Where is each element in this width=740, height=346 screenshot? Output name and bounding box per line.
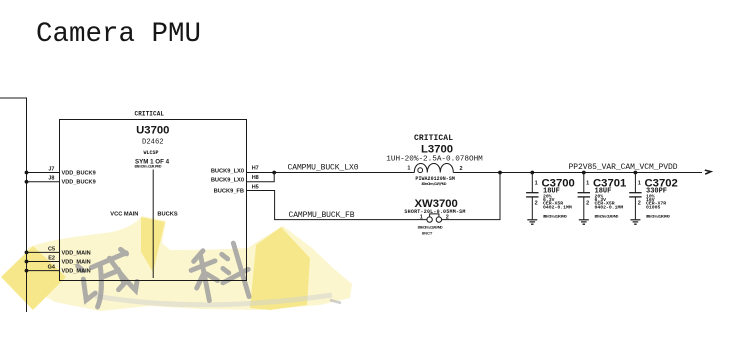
svg-text:800mOhm_CUR_PMD: 800mOhm_CUR_PMD — [595, 215, 619, 219]
svg-text:800mOhm_CUR_PMD: 800mOhm_CUR_PMD — [422, 182, 447, 186]
wire L3700 to output node — [453, 172, 500, 174]
junction J8 — [25, 180, 29, 184]
svg-text:CRITICAL: CRITICAL — [135, 111, 165, 118]
wire section divider inside U3700 — [152, 170, 154, 279]
svg-text:C5: C5 — [48, 246, 55, 252]
junction C3702 — [634, 171, 638, 175]
svg-text:800mOhm_CUR_PMD: 800mOhm_CUR_PMD — [543, 215, 567, 219]
svg-text:2: 2 — [446, 214, 449, 220]
svg-text:1: 1 — [535, 181, 538, 187]
svg-text:1: 1 — [420, 214, 423, 220]
junction C3700 — [530, 171, 534, 175]
svg-text:E2: E2 — [48, 256, 55, 262]
inductor L3700 — [414, 164, 453, 173]
junction E2 — [25, 260, 29, 264]
capacitor C3701 leads — [578, 173, 590, 220]
wire PP2V85_VAR_CAM_VCM_PVDD — [500, 172, 702, 174]
wire PP_VDD_MAIN feed — [0, 98, 27, 312]
wire pin H5 stub to FB — [247, 191, 427, 220]
svg-text:2: 2 — [460, 166, 463, 172]
svg-text:J8: J8 — [48, 176, 54, 182]
svg-text:PP2V85_VAR_CAM_VCM_PVDD: PP2V85_VAR_CAM_VCM_PVDD — [569, 163, 678, 172]
svg-text:8NCT: 8NCT — [422, 231, 433, 236]
svg-text:800mOhm_CUR_PMD: 800mOhm_CUR_PMD — [418, 226, 443, 230]
svg-text:CAMPMU_BUCK_FB: CAMPMU_BUCK_FB — [289, 211, 355, 220]
svg-text:D2462: D2462 — [142, 138, 164, 146]
junction G4 — [25, 269, 29, 273]
wire pin E2 stub — [27, 261, 60, 263]
capacitor C3700 leads — [526, 173, 538, 220]
svg-text:U3700: U3700 — [136, 124, 169, 136]
capacitor C3702 leads — [629, 173, 641, 220]
svg-text:BUCKS: BUCKS — [157, 211, 177, 217]
svg-text:VDD_MAIN: VDD_MAIN — [62, 259, 91, 265]
svg-text:CRITICAL: CRITICAL — [414, 134, 453, 143]
wire pin J7 stub — [27, 172, 60, 174]
svg-text:Camera PMU: Camera PMU — [36, 19, 201, 50]
svg-text:H8: H8 — [252, 175, 259, 181]
junction C5 — [25, 251, 29, 255]
junction C3701 — [582, 171, 586, 175]
junction J7 — [25, 171, 29, 175]
svg-text:VDD_BUCK9: VDD_BUCK9 — [62, 180, 96, 186]
wire pin G4 stub — [27, 270, 60, 272]
ground below C3702 — [630, 220, 640, 224]
svg-text:H7: H7 — [252, 166, 259, 172]
svg-text:VCC MAIN: VCC MAIN — [110, 211, 138, 217]
svg-text:CAMPMU_BUCK_LX0: CAMPMU_BUCK_LX0 — [288, 164, 359, 173]
svg-text:1: 1 — [638, 181, 641, 187]
ground below C3700 — [527, 220, 537, 224]
svg-text:1: 1 — [586, 181, 589, 187]
svg-text:01005: 01005 — [646, 204, 661, 210]
jumper XW3700 — [427, 214, 442, 222]
svg-text:BUCK9_LX0: BUCK9_LX0 — [211, 178, 244, 184]
svg-text:1UH-20%-2.5A-0.078OHM: 1UH-20%-2.5A-0.078OHM — [386, 155, 483, 163]
svg-text:WLCSP: WLCSP — [143, 150, 158, 156]
svg-text:J7: J7 — [48, 166, 54, 172]
wire pin H7 stub — [247, 172, 275, 174]
svg-text:800mOhm_CUR_PMD: 800mOhm_CUR_PMD — [135, 164, 162, 168]
IC U3700 — [60, 120, 247, 281]
svg-text:2: 2 — [535, 201, 538, 207]
svg-text:0402-0.1MM: 0402-0.1MM — [595, 204, 624, 210]
wire pin H8 stub — [247, 173, 275, 182]
svg-text:VDD_MAIN: VDD_MAIN — [62, 269, 91, 275]
svg-text:H5: H5 — [252, 184, 259, 190]
svg-text:2: 2 — [638, 201, 641, 207]
svg-text:VDD_BUCK9: VDD_BUCK9 — [62, 170, 96, 176]
svg-text:G4: G4 — [48, 265, 56, 271]
wire CAMPMU_BUCK_LX0 — [274, 172, 414, 174]
svg-text:BUCK9_LX0: BUCK9_LX0 — [211, 168, 244, 174]
svg-text:VDD_MAIN: VDD_MAIN — [62, 250, 91, 256]
svg-text:SHORT-20L-0.05MM-SM: SHORT-20L-0.05MM-SM — [404, 209, 465, 215]
svg-text:L3700: L3700 — [421, 144, 453, 156]
svg-text:0402-0.1MM: 0402-0.1MM — [543, 204, 572, 210]
off-page arrow — [705, 170, 711, 174]
ground below C3701 — [579, 220, 589, 224]
wire pin C5 stub — [27, 251, 60, 253]
svg-text:BUCK9_FB: BUCK9_FB — [214, 189, 244, 195]
svg-text:800mOhm_CUR_PMD: 800mOhm_CUR_PMD — [646, 215, 670, 219]
wire pin J8 stub — [27, 181, 60, 183]
junction output node — [498, 171, 502, 175]
junction LX0 node — [272, 171, 276, 175]
svg-text:2: 2 — [586, 201, 589, 207]
wire FB return riser — [442, 173, 501, 220]
svg-text:1: 1 — [407, 166, 410, 172]
